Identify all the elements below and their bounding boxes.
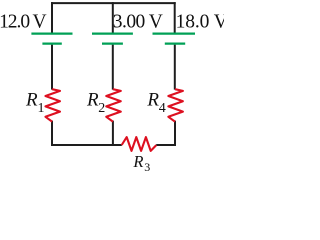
svg-text:R: R [25,90,38,111]
svg-text:3: 3 [144,160,150,174]
svg-text:2: 2 [98,101,105,116]
svg-text:R: R [146,90,159,111]
svg-text:1: 1 [38,101,45,116]
svg-text:12.0 V: 12.0 V [0,12,46,33]
svg-text:R: R [86,90,99,111]
svg-text:3.00 V: 3.00 V [113,12,163,33]
svg-text:4: 4 [159,101,166,116]
svg-text:18.0 V: 18.0 V [176,12,224,33]
svg-text:R: R [132,152,143,171]
